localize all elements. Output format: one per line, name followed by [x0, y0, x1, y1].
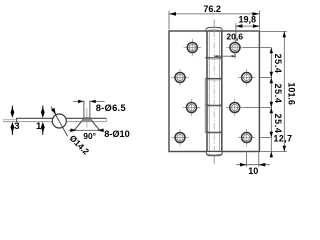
svg-text:25.4: 25.4: [273, 84, 283, 104]
svg-text:8-Ø6.5: 8-Ø6.5: [96, 103, 126, 113]
svg-text:3: 3: [14, 121, 19, 132]
svg-text:1: 1: [36, 121, 42, 132]
svg-text:90°: 90°: [83, 131, 96, 141]
svg-text:8-Ø10: 8-Ø10: [104, 129, 130, 139]
svg-text:25.4: 25.4: [273, 114, 283, 134]
svg-text:20,6: 20,6: [226, 31, 243, 41]
svg-text:10: 10: [248, 166, 258, 176]
svg-text:25.4: 25.4: [273, 54, 283, 74]
svg-text:12,7: 12,7: [273, 133, 292, 143]
svg-text:19,8: 19,8: [239, 15, 257, 25]
svg-text:76.2: 76.2: [203, 4, 221, 14]
svg-text:101.6: 101.6: [286, 82, 296, 105]
